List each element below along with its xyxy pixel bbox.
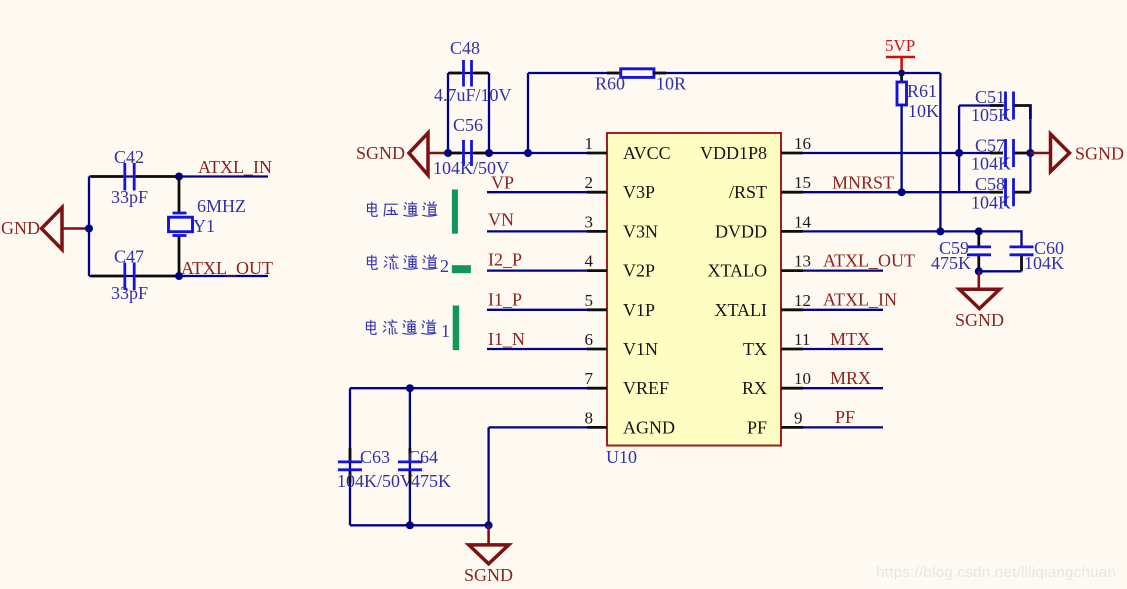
svg-text:MNRST: MNRST [832, 173, 894, 193]
svg-text:15: 15 [794, 173, 811, 192]
resistor R61 [897, 73, 937, 192]
svg-text:C48: C48 [450, 38, 480, 58]
svg-text:33pF: 33pF [111, 187, 148, 207]
svg-text:33pF: 33pF [111, 283, 148, 303]
wire I2_P pin4 [487, 269, 588, 271]
wire ATXL_OUT pin13 [803, 269, 883, 271]
svg-text:R60: R60 [595, 74, 625, 94]
label voltage channel 电压通道 [367, 202, 436, 217]
svg-text:TX: TX [743, 339, 767, 359]
wire C51 right lead [1015, 106, 1031, 120]
svg-text:MRX: MRX [830, 368, 871, 388]
wire ATXL_IN pin12 [803, 309, 883, 311]
svg-text:DVDD: DVDD [715, 221, 767, 241]
svg-text:I1_P: I1_P [488, 290, 522, 310]
svg-text:104K/50V: 104K/50V [337, 471, 413, 491]
svg-text:XTALO: XTALO [707, 261, 767, 281]
marker current channel 2 green dash [452, 265, 471, 273]
capacitor C64 [398, 447, 438, 483]
svg-text:https://blog.csdn.net/liliqian: https://blog.csdn.net/liliqiangchuan [876, 564, 1116, 581]
svg-text:I2_P: I2_P [488, 250, 522, 270]
junction 5VP node [898, 70, 905, 77]
wire cap cluster left rail [958, 106, 960, 193]
wire ATXL_OUT bottom segment [89, 275, 268, 277]
svg-text:2: 2 [440, 256, 449, 276]
wire bottom rail [350, 524, 489, 526]
wire I1_P pin5 [487, 309, 588, 311]
pin 11 TX [743, 330, 810, 359]
svg-text:6MHZ: 6MHZ [197, 196, 246, 216]
svg-text:V1N: V1N [623, 339, 658, 359]
pin 7 VREF [585, 369, 670, 398]
pin 15 /RST [729, 173, 811, 202]
junction AVCC node a [444, 149, 452, 157]
wire VP pin2 [487, 191, 588, 193]
wire R60 to 5VP node [653, 72, 940, 74]
svg-text:C42: C42 [114, 147, 144, 167]
junction VREF node [406, 384, 414, 392]
svg-text:PF: PF [747, 417, 767, 437]
junction AVCC node b [485, 149, 493, 157]
marker voltage channel green bar [452, 190, 458, 234]
wire 5VP to DVDD vertical [939, 73, 941, 231]
crystal Y1 [169, 178, 216, 276]
svg-text:Y1: Y1 [193, 216, 215, 236]
IC U10 [606, 133, 781, 467]
svg-text:3: 3 [585, 212, 594, 231]
junction node XTALI [175, 173, 183, 181]
capacitor C51 [975, 87, 1014, 120]
svg-text:C58: C58 [975, 174, 1005, 194]
wire MRX pin10 [803, 387, 883, 389]
svg-text:ATXL_IN: ATXL_IN [198, 157, 272, 177]
svg-text:VP: VP [491, 173, 514, 193]
svg-text:PF: PF [835, 407, 855, 427]
wire AGND pin8 [489, 426, 588, 428]
pin 2 V3P [585, 173, 656, 202]
wire VREF pin7 [350, 387, 588, 389]
wire left vertical [88, 177, 90, 277]
wire C48 right rail [488, 73, 490, 153]
svg-text:9: 9 [794, 408, 803, 427]
svg-text:ATXL_OUT: ATXL_OUT [181, 258, 273, 278]
svg-text:V1P: V1P [623, 300, 655, 320]
wire VN pin3 [487, 230, 588, 232]
capacitor C48 [450, 38, 480, 87]
svg-text:5: 5 [585, 291, 594, 310]
svg-text:VREF: VREF [623, 378, 669, 398]
wire AVCC riser [527, 73, 529, 153]
junction left rail VDD1P8 [955, 149, 963, 157]
power SGND mid [955, 271, 1004, 330]
junction at GND node [85, 225, 93, 233]
resistor R60 [595, 69, 654, 94]
svg-text:12: 12 [794, 291, 811, 310]
wire VDD1P8 pin16 [803, 152, 992, 154]
wire MTX pin11 [803, 348, 883, 350]
svg-text:C63: C63 [360, 447, 390, 467]
svg-text:AGND: AGND [623, 417, 675, 437]
svg-text:/RST: /RST [729, 182, 767, 202]
svg-text:ATXL_IN: ATXL_IN [823, 290, 897, 310]
pin 13 XTALO [707, 252, 811, 281]
pin 1 AVCC [585, 134, 671, 163]
svg-text:10: 10 [794, 369, 811, 388]
junction bottom rail AGND [485, 521, 493, 529]
svg-text:7: 7 [585, 369, 594, 388]
svg-text:10K: 10K [908, 101, 939, 121]
svg-text:1: 1 [585, 134, 594, 153]
svg-text:SGND: SGND [1075, 144, 1124, 164]
svg-text:R61: R61 [907, 81, 937, 101]
svg-text:V3N: V3N [623, 221, 658, 241]
junction DVDD node a [936, 227, 944, 235]
wire PF pin9 [803, 426, 883, 428]
junction node XTALO [175, 272, 183, 280]
capacitor C63 [338, 447, 390, 483]
pin 9 PF [747, 408, 803, 437]
svg-text:V3P: V3P [623, 182, 655, 202]
svg-text:10R: 10R [656, 74, 686, 94]
svg-text:C57: C57 [975, 136, 1005, 156]
svg-text:C47: C47 [114, 247, 144, 267]
pin 5 V1P [585, 291, 656, 320]
junction C57 right [1026, 149, 1034, 157]
svg-text:104K: 104K [971, 193, 1011, 213]
svg-text:VN: VN [488, 210, 514, 230]
junction MNRST node [898, 188, 906, 196]
svg-text:4.7uF/10V: 4.7uF/10V [434, 85, 512, 105]
pin 4 V2P [585, 252, 656, 281]
svg-text:105K: 105K [971, 105, 1011, 125]
pin 10 RX [742, 369, 811, 398]
capacitor C42 [114, 147, 144, 191]
svg-text:AVCC: AVCC [623, 143, 671, 163]
svg-text:C64: C64 [408, 447, 438, 467]
pin 12 XTALI [714, 291, 811, 320]
svg-text:C56: C56 [453, 115, 483, 135]
svg-text:GND: GND [1, 218, 40, 238]
wire I1_N pin6 [487, 348, 588, 350]
wire C51 top [959, 104, 1004, 106]
wire C63 vertical [349, 388, 351, 525]
pin 14 DVDD [715, 212, 812, 241]
wire ATXL_IN top segment [89, 175, 268, 177]
junction AVCC node c [524, 149, 532, 157]
svg-text:16: 16 [794, 134, 811, 153]
capacitor C60 [1010, 238, 1065, 271]
power SGND right [1030, 134, 1124, 172]
svg-text:104K: 104K [1024, 253, 1064, 273]
ground GND [1, 208, 89, 250]
pin 16 VDD1P8 [700, 134, 811, 163]
wire cap cluster right rail [1029, 106, 1031, 193]
wire top to R60 [528, 72, 620, 74]
svg-text:U10: U10 [606, 447, 637, 467]
svg-text:XTALI: XTALI [714, 300, 767, 320]
power 5VP [885, 36, 915, 73]
svg-text:V2P: V2P [623, 261, 655, 281]
svg-text:C51: C51 [975, 87, 1005, 107]
capacitor C57 [975, 136, 1030, 168]
svg-text:MTX: MTX [830, 329, 870, 349]
capacitor C47 [114, 247, 144, 291]
svg-text:RX: RX [742, 378, 767, 398]
wire AGND vertical [487, 427, 489, 525]
pin 6 V1N [585, 330, 659, 359]
svg-text:5VP: 5VP [885, 36, 915, 55]
junction DVDD node b [975, 227, 983, 235]
capacitor C56 [453, 115, 483, 166]
svg-text:VDD1P8: VDD1P8 [700, 143, 767, 163]
svg-text:8: 8 [585, 408, 594, 427]
pin 8 AGND [585, 408, 676, 437]
svg-text:14: 14 [794, 212, 812, 231]
power SGND left [356, 133, 448, 175]
svg-text:SGND: SGND [955, 310, 1004, 330]
capacitor C58 [975, 174, 1030, 206]
marker current channel 1 green bar [453, 306, 460, 351]
svg-text:6: 6 [585, 330, 594, 349]
svg-text:475K: 475K [411, 471, 451, 491]
wire DVDD to C60 [979, 231, 1022, 246]
capacitor C59 [939, 232, 991, 271]
label current channel 1 电流通道1 [366, 320, 450, 341]
power SGND bottom [464, 525, 513, 585]
svg-text:2: 2 [585, 173, 594, 192]
wire C64 vertical [409, 388, 411, 525]
junction bottom rail C64 [406, 521, 414, 529]
svg-text:13: 13 [794, 252, 811, 271]
wire DVDD pin14 [803, 230, 979, 232]
pin 3 V3N [585, 212, 659, 241]
svg-text:11: 11 [794, 330, 810, 349]
label current channel 2 电流通道2 [367, 255, 449, 276]
svg-text:104K: 104K [971, 154, 1011, 174]
wire AVCC pin1 [448, 152, 588, 154]
svg-text:SGND: SGND [356, 143, 405, 163]
wire C59 C60 bottom rail [979, 270, 1022, 272]
svg-text:I1_N: I1_N [488, 329, 525, 349]
wire C48 left rail [447, 73, 449, 153]
wire C48 top [448, 72, 489, 74]
svg-text:475K: 475K [931, 253, 971, 273]
wire MNRST pin15 [803, 191, 992, 193]
svg-text:ATXL_OUT: ATXL_OUT [823, 251, 915, 271]
svg-text:4: 4 [585, 252, 594, 271]
svg-text:SGND: SGND [464, 565, 513, 585]
junction bottom rail [975, 267, 983, 275]
svg-text:1: 1 [441, 321, 450, 341]
